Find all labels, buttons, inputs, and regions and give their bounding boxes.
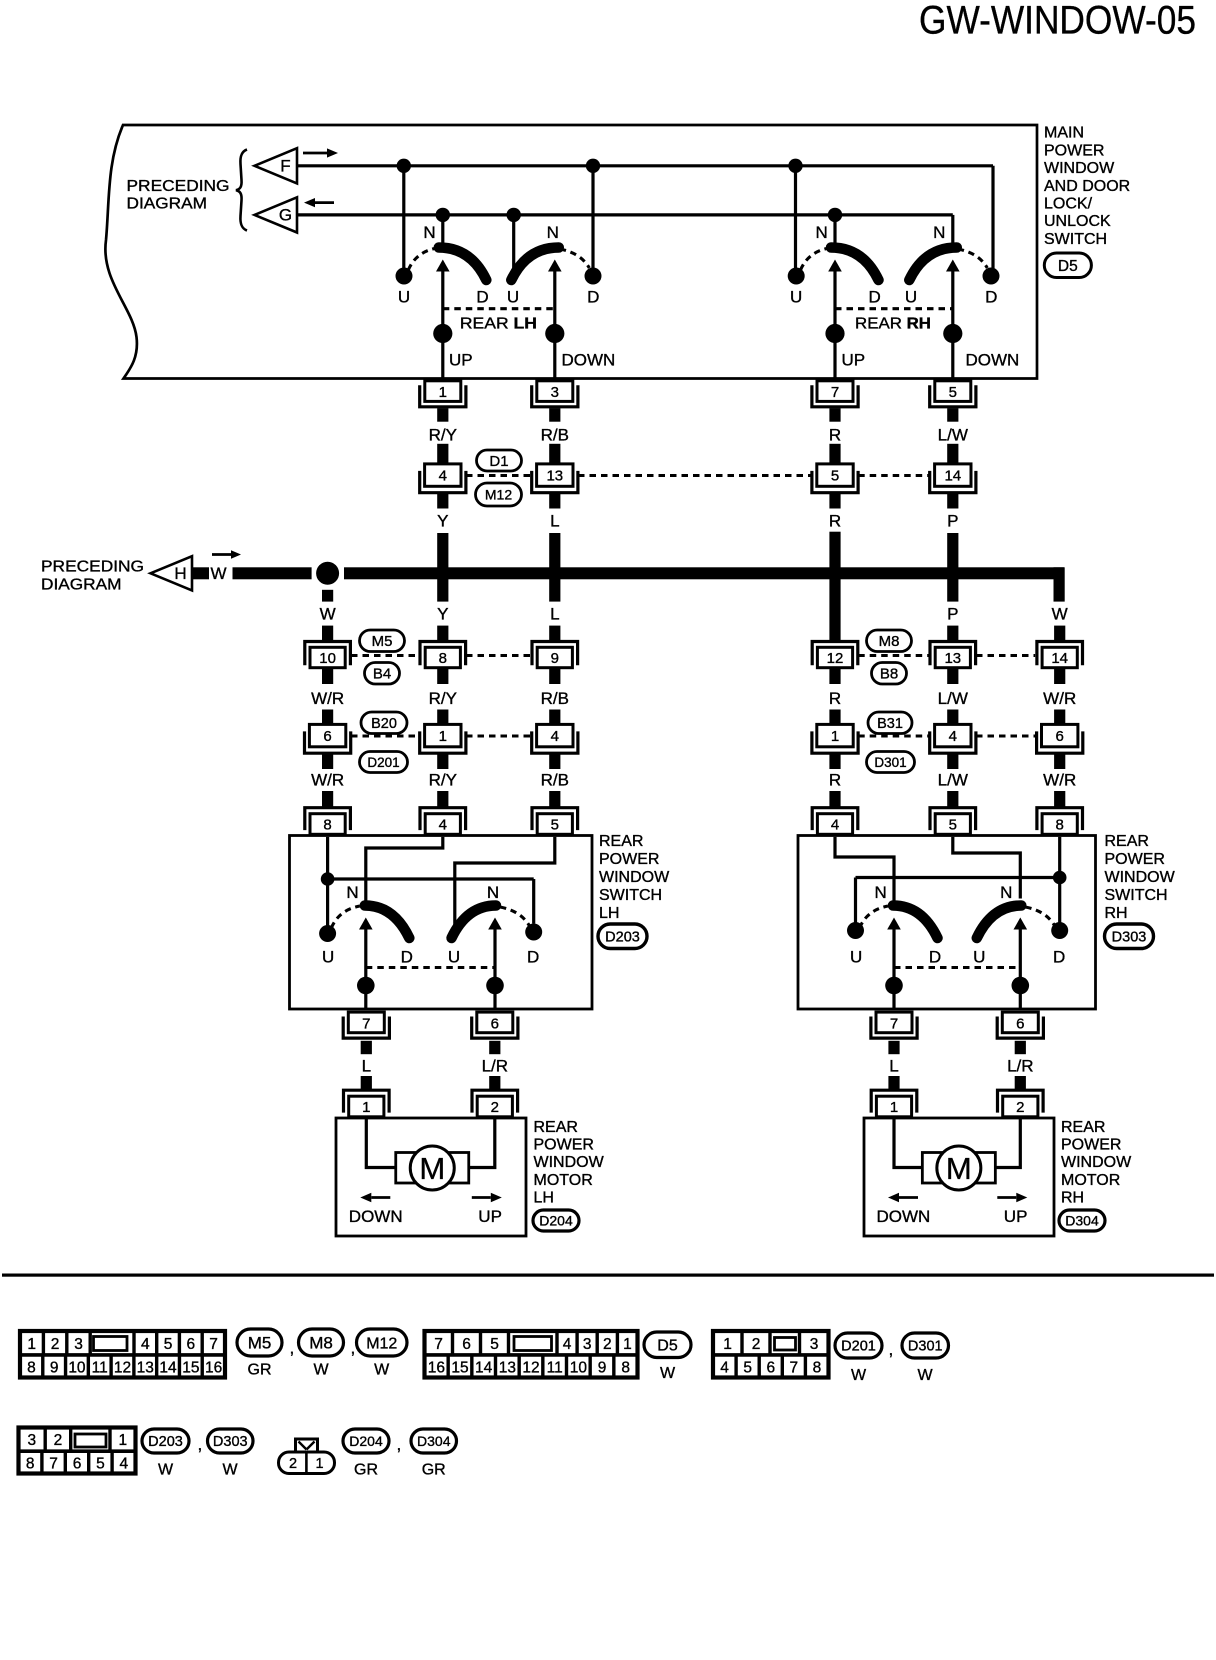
pin 8 of D303 xyxy=(1037,808,1083,835)
wiper arrow down-switch (D203) xyxy=(488,918,502,1010)
rear power window switch LH box xyxy=(290,836,593,1010)
arrow out (F) xyxy=(303,148,338,157)
connector pin 12 (M8/B8) xyxy=(812,642,858,668)
svg-text:6: 6 xyxy=(1056,728,1064,745)
dashed mate line 8-9 xyxy=(466,654,532,657)
svg-text:H: H xyxy=(174,564,186,583)
dashed mate line 1-4 (RH) xyxy=(858,734,929,737)
connector outline D204/D304 (2-pin) xyxy=(279,1439,335,1474)
svg-text:1: 1 xyxy=(118,1432,127,1449)
svg-text:16: 16 xyxy=(428,1359,445,1376)
wire UP to pin 7 xyxy=(833,334,836,378)
svg-text:W: W xyxy=(660,1365,676,1382)
label W (M12 colour) xyxy=(374,1362,390,1379)
svg-text:W: W xyxy=(222,1462,238,1479)
wire to D dot (D203) xyxy=(532,879,535,924)
svg-text:N: N xyxy=(487,883,499,902)
svg-text:6: 6 xyxy=(186,1336,195,1353)
label UP (RH) xyxy=(842,351,866,370)
switch rear LH down contact (in D5) xyxy=(507,223,602,327)
D contact dot (D303) xyxy=(1051,922,1068,939)
svg-text:D301: D301 xyxy=(874,755,906,770)
svg-text:15: 15 xyxy=(451,1359,468,1376)
svg-text:L: L xyxy=(889,1057,898,1076)
wire label L/R xyxy=(1007,1057,1033,1076)
svg-text:2: 2 xyxy=(289,1456,297,1472)
connector pin 10 (M5/B4) xyxy=(305,642,351,668)
svg-text:RH: RH xyxy=(1105,905,1128,922)
dashed mate line 4-13 xyxy=(466,474,532,477)
wire label L/W xyxy=(938,426,968,445)
svg-text:UNLOCK: UNLOCK xyxy=(1044,213,1111,230)
wire pin4 jog (D303) xyxy=(835,837,894,901)
wire label L/W xyxy=(938,771,968,790)
wire label L xyxy=(362,1057,371,1076)
svg-text:R/Y: R/Y xyxy=(429,771,457,790)
label REAR POWER WINDOW SWITCH LH xyxy=(599,833,670,922)
svg-text:B31: B31 xyxy=(877,716,903,732)
svg-text:14: 14 xyxy=(475,1359,493,1376)
wire stub xyxy=(437,754,448,769)
svg-text:UP: UP xyxy=(478,1207,502,1226)
connector pinout table D203/D303 (8-pin) xyxy=(19,1428,136,1474)
junction on F at U of rear RH up-switch xyxy=(788,159,802,173)
connector ref oval D304 xyxy=(1059,1210,1105,1231)
svg-text:GR: GR xyxy=(422,1462,446,1479)
U contact dot (D303) xyxy=(847,922,864,939)
connector ref oval M8 (table) xyxy=(299,1329,344,1356)
label GR (M5 colour) xyxy=(248,1362,272,1379)
arrow (H) xyxy=(212,550,241,559)
svg-text:REAR: REAR xyxy=(534,1119,578,1136)
wire stub xyxy=(489,1041,500,1054)
wire stub xyxy=(549,408,560,422)
wire stub xyxy=(829,494,840,509)
connector ref oval B31 xyxy=(868,712,912,734)
svg-text:W/R: W/R xyxy=(311,771,344,790)
svg-text:5: 5 xyxy=(551,817,559,834)
svg-text:D304: D304 xyxy=(417,1433,451,1449)
label PRECEDING DIAGRAM (top) xyxy=(127,178,230,213)
svg-text:12: 12 xyxy=(522,1359,539,1376)
svg-text:3: 3 xyxy=(28,1432,37,1449)
svg-text:U: U xyxy=(790,288,802,307)
wire pin8 drop (D203) xyxy=(326,837,329,873)
label D (D203) xyxy=(401,948,413,967)
pin 1 of D204 xyxy=(344,1090,390,1117)
svg-text:U: U xyxy=(322,948,334,967)
junction dot DOWN (LH) xyxy=(545,324,564,343)
svg-text:DOWN: DOWN xyxy=(349,1207,403,1226)
label W (D301 colour) xyxy=(917,1367,933,1384)
wire stub xyxy=(437,408,448,422)
wire F to U dot (LH up) xyxy=(402,166,405,268)
wire pin5 jog (D203) xyxy=(455,837,555,927)
svg-text:13: 13 xyxy=(499,1359,516,1376)
connector pin 4 (B20/D201) xyxy=(532,724,578,753)
crossover wire (D303) xyxy=(856,876,1060,879)
wire stub xyxy=(361,1041,372,1054)
wire label W/R xyxy=(1043,771,1076,790)
svg-text:4: 4 xyxy=(141,1336,150,1353)
svg-text:4: 4 xyxy=(439,817,447,834)
connector ref oval D203 (table) xyxy=(142,1429,189,1453)
svg-text:D5: D5 xyxy=(657,1338,678,1355)
label GR (D304 colour) xyxy=(422,1462,446,1479)
junction dot UP (LH) xyxy=(433,324,452,343)
pin 2 of D204 xyxy=(472,1090,518,1117)
svg-text:D: D xyxy=(869,288,881,307)
svg-text:4: 4 xyxy=(119,1455,128,1472)
label U (D203) xyxy=(448,948,460,967)
wire F rail xyxy=(297,166,993,269)
wire pin5 jog (D303) xyxy=(953,837,1021,899)
svg-text:Y: Y xyxy=(437,605,448,624)
svg-text:4: 4 xyxy=(563,1336,572,1353)
wire pin2 to motor xyxy=(466,1118,495,1168)
svg-text:9: 9 xyxy=(50,1359,59,1376)
dashed mate line 13-14 xyxy=(976,654,1035,657)
arrow DOWN xyxy=(360,1193,390,1203)
svg-text:5: 5 xyxy=(164,1336,173,1353)
svg-text:M12: M12 xyxy=(366,1335,397,1352)
svg-text:SWITCH: SWITCH xyxy=(1105,887,1168,904)
D contact dot (D203) xyxy=(525,924,542,941)
wire G rail xyxy=(297,215,953,244)
dashed wiper arc (D203) xyxy=(331,906,360,928)
svg-text:N: N xyxy=(816,223,828,242)
wire stub xyxy=(947,668,958,684)
wire label L xyxy=(550,605,559,624)
svg-text:2: 2 xyxy=(51,1336,60,1353)
pin 1 of D5 xyxy=(420,381,466,407)
svg-text:3: 3 xyxy=(551,384,559,401)
svg-text:MAIN: MAIN xyxy=(1044,125,1084,142)
wire label L xyxy=(550,512,559,531)
connector ref oval D303 xyxy=(1105,924,1154,949)
rear power window motor box LH (D204) xyxy=(336,1118,526,1236)
wire stub xyxy=(361,1076,372,1090)
connector symbol G (preceding diagram) xyxy=(255,197,298,232)
svg-text:WINDOW: WINDOW xyxy=(1044,160,1115,177)
dashed mate line 12-13 xyxy=(858,654,929,657)
wire stub xyxy=(888,1076,899,1090)
svg-text:PRECEDING: PRECEDING xyxy=(127,178,230,195)
pin 1 of D304 xyxy=(871,1090,917,1117)
wire to U dot (D303) xyxy=(854,878,857,923)
svg-text:PRECEDING: PRECEDING xyxy=(41,559,144,576)
wire G to N (LH up) xyxy=(441,215,444,244)
comma xyxy=(889,1340,894,1359)
svg-text:8: 8 xyxy=(621,1359,630,1376)
svg-text:13: 13 xyxy=(944,650,961,667)
svg-text:4: 4 xyxy=(439,467,447,484)
motor M circle xyxy=(410,1146,454,1190)
wire to D dot (D303) xyxy=(1058,884,1061,923)
connector symbol H (preceding diagram) xyxy=(151,556,193,590)
svg-text:POWER: POWER xyxy=(1044,142,1104,159)
svg-text:R: R xyxy=(829,689,841,708)
junction on G at N of rear LH up-switch xyxy=(436,208,450,222)
svg-text:7: 7 xyxy=(49,1455,58,1472)
svg-text:MOTOR: MOTOR xyxy=(1061,1172,1120,1189)
comma xyxy=(397,1435,402,1454)
switch rear LH up contact (in D5) xyxy=(396,223,489,327)
wire label R/B xyxy=(541,426,569,445)
dashed mate line 5-14 xyxy=(858,474,929,477)
svg-text:RH: RH xyxy=(1061,1189,1084,1206)
switch arc up contact (D303) xyxy=(893,906,938,939)
svg-text:M8: M8 xyxy=(309,1334,333,1353)
junction dot (D303) xyxy=(1012,977,1030,995)
label W (D303 colour) xyxy=(222,1462,238,1479)
wire label L xyxy=(889,1057,898,1076)
svg-text:2: 2 xyxy=(1016,1099,1024,1116)
wire stub xyxy=(829,408,840,422)
svg-text:L/W: L/W xyxy=(938,689,968,708)
svg-text:9: 9 xyxy=(598,1359,607,1376)
connector ref oval M12 (table) xyxy=(357,1329,408,1356)
mech link dashed (rear RH pair) xyxy=(835,307,953,310)
wire label L/W xyxy=(938,689,968,708)
mech link dashed (D303) xyxy=(894,966,1020,969)
wire F to U dot (RH up) xyxy=(794,166,797,268)
wire stub xyxy=(947,626,958,641)
motor brush tab left xyxy=(396,1153,416,1184)
svg-text:5: 5 xyxy=(949,384,957,401)
svg-text:UP: UP xyxy=(1004,1207,1028,1226)
svg-text:7: 7 xyxy=(209,1336,218,1353)
svg-text:F: F xyxy=(280,156,290,175)
comma xyxy=(198,1435,203,1454)
wire stub xyxy=(829,668,840,684)
connector ref oval D203 xyxy=(598,924,647,949)
svg-text:REAR: REAR xyxy=(1061,1119,1105,1136)
wire label R xyxy=(829,426,841,445)
curly brace xyxy=(236,150,247,231)
pin 4 of D203 xyxy=(420,808,466,835)
label DOWN (RH) xyxy=(966,351,1020,370)
wire label R/B xyxy=(541,771,569,790)
svg-text:W: W xyxy=(917,1367,933,1384)
svg-text:D: D xyxy=(587,288,599,307)
svg-text:15: 15 xyxy=(182,1359,199,1376)
label REAR RH xyxy=(855,316,931,333)
svg-text:N: N xyxy=(423,223,435,242)
svg-text:3: 3 xyxy=(74,1336,83,1353)
svg-text:8: 8 xyxy=(439,650,447,667)
wiper arrow up-switch (D303) xyxy=(887,918,901,1010)
wire pin8 drop (D303) xyxy=(1058,837,1061,871)
bus stub at H xyxy=(192,567,209,579)
arrow UP xyxy=(472,1193,502,1203)
label D (D203) xyxy=(527,948,539,967)
svg-text:1: 1 xyxy=(362,1099,370,1116)
svg-text:D204: D204 xyxy=(349,1433,383,1449)
wire stub xyxy=(1054,754,1065,769)
pin 6 of D303 xyxy=(997,1012,1043,1038)
svg-text:P: P xyxy=(947,605,958,624)
svg-text:D: D xyxy=(401,948,413,967)
svg-text:L/W: L/W xyxy=(938,771,968,790)
connector ref oval D303 (table) xyxy=(208,1429,254,1453)
label DOWN (LH) xyxy=(562,351,616,370)
wire stub xyxy=(322,668,333,684)
svg-text:LH: LH xyxy=(534,1189,554,1206)
motor M circle xyxy=(937,1146,981,1190)
label DOWN xyxy=(877,1207,931,1226)
svg-text:13: 13 xyxy=(546,467,563,484)
svg-text:WINDOW: WINDOW xyxy=(1105,869,1176,886)
connector pin 6 (B20/D201) xyxy=(305,724,351,753)
wire stub xyxy=(549,710,560,725)
pin 8 of D203 xyxy=(305,808,351,835)
svg-text:1: 1 xyxy=(723,1336,732,1353)
svg-text:N: N xyxy=(875,883,887,902)
label UP xyxy=(478,1207,502,1226)
svg-text:2: 2 xyxy=(491,1099,499,1116)
svg-text:L: L xyxy=(550,512,559,531)
label N (D203) xyxy=(346,883,358,902)
svg-text:9: 9 xyxy=(551,650,559,667)
junction on F at U of rear LH up-switch xyxy=(397,159,411,173)
svg-text:W/R: W/R xyxy=(311,689,344,708)
svg-text:D201: D201 xyxy=(841,1339,876,1355)
wire stub xyxy=(829,791,840,807)
svg-text:REAR RH: REAR RH xyxy=(855,316,931,333)
svg-text:MOTOR: MOTOR xyxy=(534,1172,593,1189)
wire label W (left) xyxy=(320,605,336,624)
svg-text:12: 12 xyxy=(114,1359,131,1376)
label REAR POWER WINDOW SWITCH RH xyxy=(1105,833,1176,922)
bus branch stub (left W) xyxy=(322,590,333,602)
wire pin2 to motor xyxy=(993,1118,1020,1168)
svg-text:D5: D5 xyxy=(1058,258,1078,275)
svg-text:W: W xyxy=(374,1362,390,1379)
label U (D303) xyxy=(973,948,985,967)
pin 5 of D303 xyxy=(930,808,976,835)
svg-text:11: 11 xyxy=(547,1359,563,1376)
svg-text:U: U xyxy=(973,948,985,967)
svg-text:DOWN: DOWN xyxy=(966,351,1020,370)
wire label R/Y xyxy=(429,689,457,708)
svg-text:N: N xyxy=(933,223,945,242)
connector pin 5 (D1/M12) xyxy=(812,464,858,493)
svg-text:,: , xyxy=(290,1339,295,1358)
svg-text:4: 4 xyxy=(949,728,957,745)
wire stub xyxy=(947,494,958,509)
P column through bus xyxy=(947,533,958,602)
svg-text:POWER: POWER xyxy=(1061,1137,1121,1154)
label W (D5 colour) xyxy=(660,1365,676,1382)
wire G to arc (LH down) xyxy=(512,215,515,273)
svg-text:DIAGRAM: DIAGRAM xyxy=(41,577,122,594)
comma xyxy=(290,1339,295,1358)
svg-text:M: M xyxy=(419,1151,445,1186)
svg-text:14: 14 xyxy=(944,467,961,484)
motor brush tab right xyxy=(975,1153,995,1184)
svg-text:,: , xyxy=(397,1435,402,1454)
connector ref oval D201 xyxy=(360,752,408,773)
junction on F at D of rear LH down-switch xyxy=(586,159,600,173)
connector ref oval D1 xyxy=(477,450,522,471)
label REAR POWER WINDOW MOTOR LH xyxy=(534,1119,605,1206)
wire stub xyxy=(549,494,560,509)
wire stub xyxy=(322,754,333,769)
svg-text:GR: GR xyxy=(354,1462,378,1479)
wire stub xyxy=(549,668,560,684)
wire stub xyxy=(437,494,448,509)
connector ref oval D301 xyxy=(867,752,915,773)
svg-text:1: 1 xyxy=(27,1336,36,1353)
label UP xyxy=(1004,1207,1028,1226)
svg-text:B20: B20 xyxy=(371,716,397,732)
svg-text:D: D xyxy=(476,288,488,307)
svg-text:14: 14 xyxy=(1051,650,1068,667)
connector ref oval D201 (table) xyxy=(835,1333,882,1358)
svg-text:5: 5 xyxy=(831,467,839,484)
wire label P xyxy=(947,605,958,624)
svg-text:6: 6 xyxy=(323,728,331,745)
wire stub xyxy=(1054,710,1065,725)
junction dot (D303) xyxy=(885,977,903,995)
connector pinout table D5 (16-pin) xyxy=(425,1331,638,1378)
wire stub xyxy=(437,710,448,725)
svg-text:7: 7 xyxy=(362,1015,370,1032)
label GR (D204 colour) xyxy=(354,1462,378,1479)
svg-text:5: 5 xyxy=(743,1359,752,1376)
svg-text:4: 4 xyxy=(551,728,559,745)
wire stub xyxy=(322,626,333,641)
svg-text:,: , xyxy=(198,1435,203,1454)
svg-text:6: 6 xyxy=(73,1455,82,1472)
svg-text:D: D xyxy=(527,948,539,967)
wire stub xyxy=(947,791,958,807)
svg-text:B4: B4 xyxy=(373,666,391,683)
svg-text:REAR: REAR xyxy=(599,833,643,850)
connector pin 9 (M5/B4) xyxy=(532,642,578,668)
svg-text:7: 7 xyxy=(831,384,839,401)
svg-text:G: G xyxy=(279,205,292,224)
svg-text:5: 5 xyxy=(949,817,957,834)
motor brush tab right xyxy=(449,1153,469,1184)
svg-text:6: 6 xyxy=(1016,1015,1024,1032)
wire label W/R xyxy=(311,771,344,790)
label W (D201 colour) xyxy=(851,1367,867,1384)
switch arc up contact (D203) xyxy=(365,906,410,939)
junction dot (D203) xyxy=(357,977,375,995)
svg-text:L/R: L/R xyxy=(482,1057,508,1076)
label PRECEDING DIAGRAM (bus) xyxy=(41,559,144,594)
svg-text:M: M xyxy=(946,1151,972,1186)
label MAIN POWER WINDOW AND DOOR LOCK/UNLOCK SWITCH xyxy=(1044,125,1130,248)
pin 2 of D304 xyxy=(998,1090,1044,1117)
wire stub xyxy=(1015,1041,1026,1054)
junction dot UP (RH) xyxy=(825,324,844,343)
wire to U dot (D203) xyxy=(326,885,329,926)
connector ref oval D304 (table) xyxy=(411,1429,457,1453)
wire G to N (RH up) xyxy=(833,215,836,244)
wire label R xyxy=(829,771,841,790)
connector pin 13 (M8/B8) xyxy=(930,642,976,668)
wire stub xyxy=(1054,668,1065,684)
wire DOWN to pin 5 xyxy=(951,334,954,378)
connector ref oval M12 xyxy=(476,483,522,506)
connector symbol F (preceding diagram) xyxy=(255,148,298,183)
wire stub xyxy=(947,754,958,769)
wire label W (at H) xyxy=(210,564,226,583)
dashed mate line 4-6 (RH) xyxy=(976,734,1035,737)
